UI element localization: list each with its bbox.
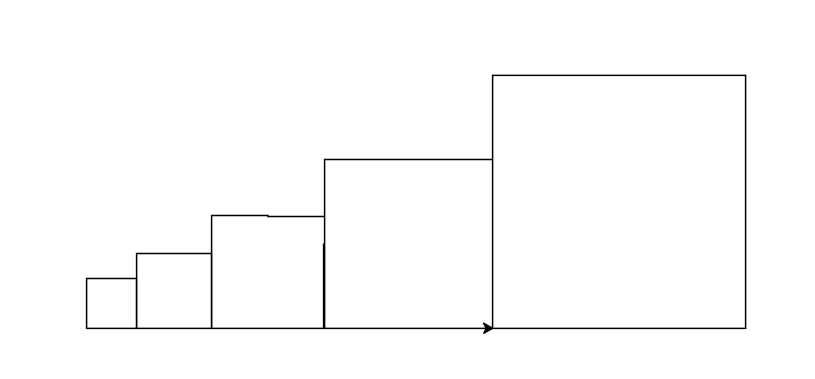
square S1 (87, 278, 137, 329)
square S4 (325, 159, 493, 329)
baseline wire (86, 327, 746, 329)
square S5 (493, 75, 746, 329)
square S3 right-edge offset segment (323, 244, 325, 329)
square S3 (212, 215, 325, 329)
square S2 (137, 253, 212, 329)
arrowhead on baseline (484, 323, 493, 333)
